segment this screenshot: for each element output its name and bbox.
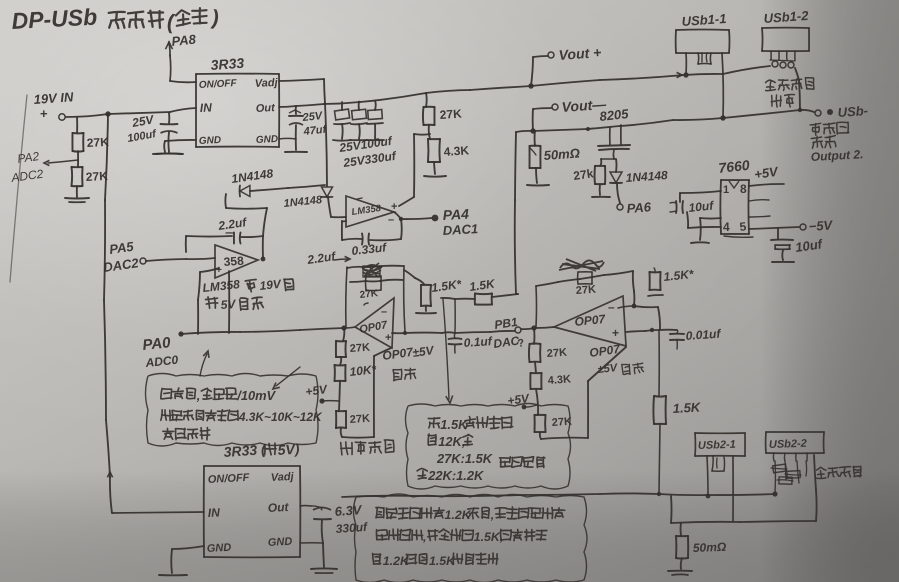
cloud1 text line3: [163, 428, 210, 440]
node Vout- junction: [530, 128, 535, 133]
label 4.3K: [443, 143, 470, 159]
node OP07a input: [341, 325, 346, 330]
plus mark U4: [391, 201, 397, 213]
svg-text:19V IN: 19V IN: [33, 89, 74, 107]
capacitor C6 10uf: [670, 201, 683, 213]
capacitor bank C3 C4 C5: [334, 109, 383, 139]
label 0.01uf: [685, 327, 722, 343]
paper crease line: [10, 95, 27, 282]
svg-text:7660: 7660: [718, 157, 751, 176]
wire U5 feedback right: [241, 236, 263, 258]
pin number 5: [739, 219, 747, 234]
node OP07b input: [531, 325, 536, 330]
wire Vout- stub: [533, 108, 552, 130]
label PB1: [493, 315, 518, 332]
wire cap47 down: [295, 125, 297, 150]
pin label IN U2: [207, 505, 220, 520]
wire r4 gnd: [434, 162, 435, 174]
svg-text:3R33: 3R33: [210, 55, 245, 73]
scribble crossed out b: [559, 259, 604, 271]
label USb-: [837, 103, 868, 120]
label 330uf: [335, 520, 368, 536]
ground cap47: [285, 151, 307, 153]
resistor R4 4.3K: [428, 139, 440, 162]
wire U2 out: [300, 505, 311, 507]
regulator U1 3R33 box: [196, 74, 279, 147]
capacitor C9 2.2uf: [234, 233, 241, 244]
terminal USb- output: [815, 110, 821, 116]
label 25V 47uf: [301, 110, 328, 138]
wire left rail: [104, 114, 112, 513]
label 10uf c6: [688, 198, 715, 215]
ground cap7: [772, 261, 794, 263]
cloud1 text line1: [161, 388, 277, 403]
svg-text:+: +: [216, 265, 222, 276]
svg-text:27K: 27K: [359, 288, 379, 301]
svg-text:+: +: [40, 106, 48, 121]
node rail usb2-1: [706, 494, 711, 499]
svg-text:PA4: PA4: [442, 206, 469, 223]
resistor R19 50mOhm: [676, 536, 688, 559]
resistor R11 10K*: [335, 365, 346, 381]
node U7 minus: [632, 304, 637, 309]
minus mark U7: [608, 300, 615, 314]
label 6.3V: [334, 502, 363, 519]
label PA0: [142, 334, 172, 354]
svg-text:GND: GND: [256, 134, 279, 146]
svg-text:50mΩ: 50mΩ: [543, 146, 580, 163]
svg-text:,: ,: [196, 388, 201, 403]
label -5V: [808, 217, 834, 234]
wire d1 to vertical: [250, 185, 325, 191]
wire mid pin gnd: [700, 218, 721, 240]
plus sign 19V: [40, 106, 48, 121]
wire Vout- rail left-down: [515, 131, 533, 294]
scribble crossed resistor: [362, 263, 382, 277]
node U4 out: [399, 217, 403, 221]
label OP07a inside: [358, 319, 389, 336]
label +5V a: [304, 382, 328, 399]
node J1 left rail: [683, 72, 688, 77]
ground r8: [416, 312, 436, 314]
label network: [771, 94, 795, 107]
label 0.33uf: [351, 240, 388, 258]
label 1.5K r9: [468, 276, 496, 294]
terminal PA6: [617, 204, 623, 210]
label PA6: [626, 199, 652, 216]
wire +5V a: [322, 400, 339, 402]
wire cap47 tap: [295, 106, 297, 114]
minus mark U6: [381, 306, 387, 318]
wire r3-r4: [429, 125, 430, 139]
label Output 2.: [810, 147, 863, 164]
capacitor C8 0.33uf: [362, 234, 369, 245]
resistor R-PA2a 27K: [72, 133, 83, 152]
svg-text:GND: GND: [199, 135, 222, 147]
svg-text:27K: 27K: [439, 106, 462, 122]
svg-text:1.5K: 1.5K: [429, 554, 456, 568]
svg-text:27K: 27K: [349, 342, 370, 355]
wire pin6 stub: [749, 216, 770, 217]
resistor R17 27K: [535, 415, 546, 432]
wire 50m2 stem: [680, 523, 682, 536]
label 10uf c7: [794, 236, 824, 255]
node 19V junction: [105, 111, 110, 116]
pin label GND U2 right: [268, 536, 293, 549]
pin J3 right: [732, 456, 734, 521]
arrow left rail: [107, 472, 112, 477]
node PA2 tap + arrow: [44, 160, 78, 166]
svg-text:27k: 27k: [572, 166, 594, 183]
wire r11-r12: [339, 381, 340, 411]
wire Vadj stub: [279, 79, 325, 103]
svg-text:27K: 27K: [86, 135, 109, 150]
pin number 8: [740, 182, 747, 196]
svg-text:IN: IN: [207, 505, 220, 520]
wire pin8 +5V rail: [749, 184, 784, 186]
wire U2 gnd-right: [300, 542, 323, 544]
svg-text:0.01uf: 0.01uf: [685, 327, 722, 343]
ground r14: [648, 295, 663, 296]
label 27k q: [572, 166, 594, 183]
ground 50m: [527, 184, 549, 187]
label USb1-1: [681, 11, 727, 29]
wire minus to out: [634, 306, 660, 329]
title DP-USb circuit diagram (reference): [11, 4, 221, 35]
label USb2-2: [769, 438, 807, 451]
ground r4: [424, 175, 446, 178]
ground 7660 left: [691, 241, 709, 244]
svg-text:,: ,: [490, 508, 494, 522]
wire lower loop: [671, 496, 816, 523]
wire divider mid: [77, 151, 79, 167]
wire minus node: [618, 306, 634, 308]
label 1N4148 d2: [283, 194, 323, 210]
node U7 out: [650, 328, 654, 332]
wire null loop b: [540, 347, 626, 439]
label OP07 5V supply b: [588, 342, 643, 376]
svg-text:Vout +: Vout +: [558, 44, 602, 63]
id resistors J4: [771, 461, 807, 493]
label USb2-1: [698, 439, 736, 452]
svg-text:27K: 27K: [575, 284, 596, 297]
svg-text:1.2K: 1.2K: [383, 554, 410, 568]
label 2.2uf u5: [216, 215, 248, 233]
wire +5V b: [524, 405, 537, 407]
svg-text:DAC1: DAC1: [442, 221, 478, 238]
svg-text:50mΩ: 50mΩ: [693, 540, 727, 555]
wire pin4 to cap: [687, 212, 721, 228]
pins J2: [771, 51, 795, 60]
svg-text:−5V: −5V: [808, 217, 834, 234]
cloud1 text line2: [161, 410, 323, 424]
op-amp U4 LM358: [346, 196, 394, 227]
pin label IN U1: [199, 100, 212, 115]
label 1.5K* r14: [663, 267, 696, 284]
ground r6: [592, 196, 610, 198]
wire r18 to rail: [659, 424, 660, 493]
label 27K r17: [551, 416, 572, 429]
svg-text:PA6: PA6: [626, 199, 652, 216]
cloud2 text line1: [428, 416, 512, 432]
label zero-adjust: [340, 439, 394, 455]
label USb1-2: [763, 8, 809, 26]
label 27K fb: [359, 288, 379, 301]
wire c12 down: [322, 520, 323, 543]
pin J3 shield pair: [712, 456, 725, 471]
wire Out rail: [279, 66, 770, 107]
node rail r18: [657, 492, 661, 496]
pin label GND U1 right: [256, 134, 279, 146]
capacitor C12 6.3V/330uf: [311, 506, 331, 519]
resistor R10 27K: [336, 341, 346, 357]
resistor R-PA2b 27K: [72, 167, 83, 186]
wire 1.5K right: [492, 294, 518, 297]
svg-text:0.1uf: 0.1uf: [463, 334, 493, 350]
wire PA5 to 358: [146, 258, 215, 261]
wire U6 fb mid: [350, 280, 403, 282]
svg-text:USb-: USb-: [837, 103, 868, 120]
wire bottom rail: [342, 493, 775, 497]
cloud2 text line4: [417, 468, 485, 483]
svg-text:DP-USb: DP-USb: [11, 4, 98, 34]
ground cap100: [156, 152, 182, 155]
label Vout-: [561, 96, 608, 115]
label id-resistor: [765, 77, 814, 91]
node divider mid: [399, 134, 430, 206]
label 10K* r11: [349, 362, 378, 379]
wire J2 down to rail2: [795, 68, 800, 110]
resistor R13 27K fb: [578, 272, 592, 284]
notch U3: [729, 181, 739, 188]
node PA0: [178, 331, 183, 336]
wire 19V to R divider: [76, 117, 78, 133]
capacitor C7 10uf: [771, 240, 793, 250]
wire r8 gnd: [425, 306, 427, 311]
pin label Out U1: [256, 102, 277, 115]
ic U3 7660 box: [720, 180, 749, 234]
label OP07b inside: [574, 312, 607, 329]
ground U2 left: [159, 574, 187, 576]
pin label Out U2: [267, 500, 289, 515]
arrow cloud1 to PA0: [200, 351, 209, 376]
pin J1 right: [722, 53, 723, 118]
svg-text:4.3K: 4.3K: [547, 373, 571, 387]
wire caps bank stems: [342, 101, 376, 110]
svg-text:USb1-2: USb1-2: [763, 8, 809, 26]
svg-text:27K: 27K: [349, 413, 370, 426]
node 8205 rail: [586, 127, 590, 131]
svg-text:GND: GND: [207, 542, 232, 555]
resistor R15 27K: [529, 344, 541, 363]
svg-text:1N4148: 1N4148: [625, 168, 668, 185]
svg-text:/10mV: /10mV: [236, 388, 276, 403]
transistor Q1 8205: [598, 125, 630, 159]
resistor R6 27k: [595, 166, 606, 184]
capacitor C-in 25V/100uf: [161, 124, 178, 133]
pin label Vadj U1: [255, 77, 279, 90]
svg-text:ON/OFF: ON/OFF: [208, 472, 250, 486]
node PA4: [432, 215, 439, 222]
label 1N4148 d1: [230, 166, 274, 186]
wire 1.5K* tap: [404, 270, 424, 284]
label charge: [811, 136, 836, 149]
wire U6 fb top: [347, 266, 404, 268]
svg-text:Out: Out: [267, 500, 289, 515]
capacitor C11 0.01uf: [670, 330, 684, 349]
svg-text:–: –: [381, 306, 387, 318]
wire vadj down: [325, 103, 327, 186]
svg-text:,: ,: [422, 530, 426, 544]
wire Vout+ stub: [531, 56, 548, 86]
svg-text:–: –: [388, 214, 394, 226]
wire r16-r17: [536, 389, 538, 415]
resistor R3 27K: [423, 107, 435, 125]
label 7660: [718, 157, 751, 176]
wire 50m gnd: [536, 168, 537, 183]
pin label Vadj U2: [271, 471, 295, 484]
wire U4 feedback left: [342, 221, 362, 240]
wire U4 feedback: [370, 219, 402, 240]
svg-text:+: +: [385, 332, 391, 344]
wire cap100 to gnd: [167, 132, 170, 152]
resistor R9 1.5K: [475, 294, 492, 305]
label 27K a: [86, 135, 109, 150]
wire U6 fb left: [346, 267, 347, 327]
wire d1 left step: [225, 194, 267, 236]
pin J1 left: [685, 53, 687, 74]
label LM358 inside: [351, 203, 383, 218]
wire out down: [658, 330, 660, 396]
label +5V 7660: [753, 164, 780, 182]
svg-text:8205: 8205: [599, 106, 630, 124]
label PA4: [442, 206, 469, 223]
label 27K r3: [439, 106, 462, 122]
label Vout+: [558, 44, 602, 63]
wire rail to IN: [112, 512, 204, 513]
pins J4: [773, 453, 807, 461]
label 0.1uf: [463, 334, 493, 350]
arrow to cloud2: [443, 299, 453, 403]
label 27K r10: [349, 342, 370, 355]
svg-text:USb2-2: USb2-2: [769, 438, 807, 451]
svg-text:4.3K: 4.3K: [443, 143, 470, 159]
svg-text:Vadj: Vadj: [255, 77, 279, 90]
ground U1 left: [153, 153, 183, 155]
tick mark U6: [364, 303, 368, 305]
label 19V IN: [33, 89, 74, 107]
wire U7 out: [626, 330, 677, 332]
label 27K r15: [546, 347, 567, 360]
resistor R5 50mOhm: [530, 146, 541, 168]
wire U7 fb left: [535, 286, 538, 327]
connector J3 USB2-1 box: [695, 433, 745, 456]
pin label GND U1 left: [199, 135, 222, 147]
terminal PA5 DAC2: [140, 258, 146, 264]
label +5V b: [506, 391, 530, 408]
label LM358 supply note: [202, 277, 294, 312]
svg-text:27K:1.5K: 27K:1.5K: [436, 451, 494, 466]
wire 27K tap: [425, 93, 428, 107]
wire cap7 gnd: [781, 250, 784, 260]
ground r19: [668, 571, 692, 575]
wire d3 to PA6: [617, 183, 620, 203]
wire r15-r16: [535, 362, 536, 373]
cloud2 text line2: [428, 434, 473, 449]
svg-text:Output 2.: Output 2.: [810, 147, 863, 164]
pin J1 shield pair: [698, 53, 711, 64]
svg-text:8: 8: [740, 182, 747, 196]
svg-text:±5V: ±5V: [597, 362, 619, 376]
label 27K r12: [349, 413, 370, 426]
node cap47 gnd pin: [279, 137, 296, 140]
svg-text:358: 358: [223, 254, 244, 269]
wire PA0 line: [181, 328, 344, 334]
svg-text:PA8: PA8: [171, 31, 198, 49]
connector J2 USB1-2 box: [762, 28, 809, 52]
wire 27k stem: [600, 159, 601, 166]
node fb-out junction: [403, 331, 407, 335]
wire r19 gnd: [681, 558, 682, 569]
label 8205: [599, 106, 630, 124]
diode D1 1N4148: [240, 186, 250, 197]
pin number 1: [723, 184, 729, 196]
label 4.3K r16: [547, 373, 571, 387]
wire U4 out: [394, 212, 432, 219]
wire U6 apex: [344, 327, 355, 328]
wire PB1 to OP07b: [521, 327, 554, 329]
wire U3 bottom tail: [724, 236, 753, 237]
wire r6 gnd: [599, 184, 601, 195]
wire c12 gnd: [323, 543, 324, 567]
wire pin1 to cap: [680, 191, 721, 202]
plus mark U6: [385, 332, 391, 344]
label ADC0: [144, 353, 179, 370]
label id-resistor b: [815, 466, 861, 479]
node +5V b: [522, 405, 527, 410]
resistor R18 1.5K: [653, 396, 666, 424]
svg-text:ON/OFF: ON/OFF: [199, 78, 238, 91]
label 3R33: [210, 55, 245, 73]
wire d2 to LM358: [328, 197, 346, 217]
pin number 4: [723, 220, 730, 234]
node J1 right rail2: [720, 115, 725, 120]
label 2.2uf arrow: [305, 249, 350, 267]
label PA5: [108, 239, 135, 257]
wire 1.5K left: [441, 298, 475, 299]
pin J3 left: [707, 456, 708, 495]
cloud bubble 1 outline: [146, 374, 319, 447]
wire 8205 bottom split: [601, 158, 616, 160]
svg-text:1.5K,: 1.5K,: [474, 530, 504, 544]
id resistor circles J2: [770, 60, 795, 68]
wire chain a: [343, 328, 344, 341]
svg-text:1.2K: 1.2K: [445, 508, 472, 522]
cloud2 text line3: [436, 451, 545, 468]
label 358 inside: [223, 254, 244, 269]
cloud bubble 3 outline: [354, 494, 588, 582]
label li-battery: [810, 122, 849, 136]
node Vout+ junction: [528, 83, 533, 88]
wire U1 gnd-left: [164, 140, 196, 152]
op-amp U6 OP07: [355, 298, 394, 348]
wire J4 right side down: [814, 455, 817, 521]
node +5V a: [319, 398, 324, 403]
svg-text:25V: 25V: [301, 110, 324, 124]
wire U6 out: [392, 331, 515, 333]
svg-text:19V: 19V: [259, 277, 283, 293]
label DAC1: [442, 221, 478, 238]
